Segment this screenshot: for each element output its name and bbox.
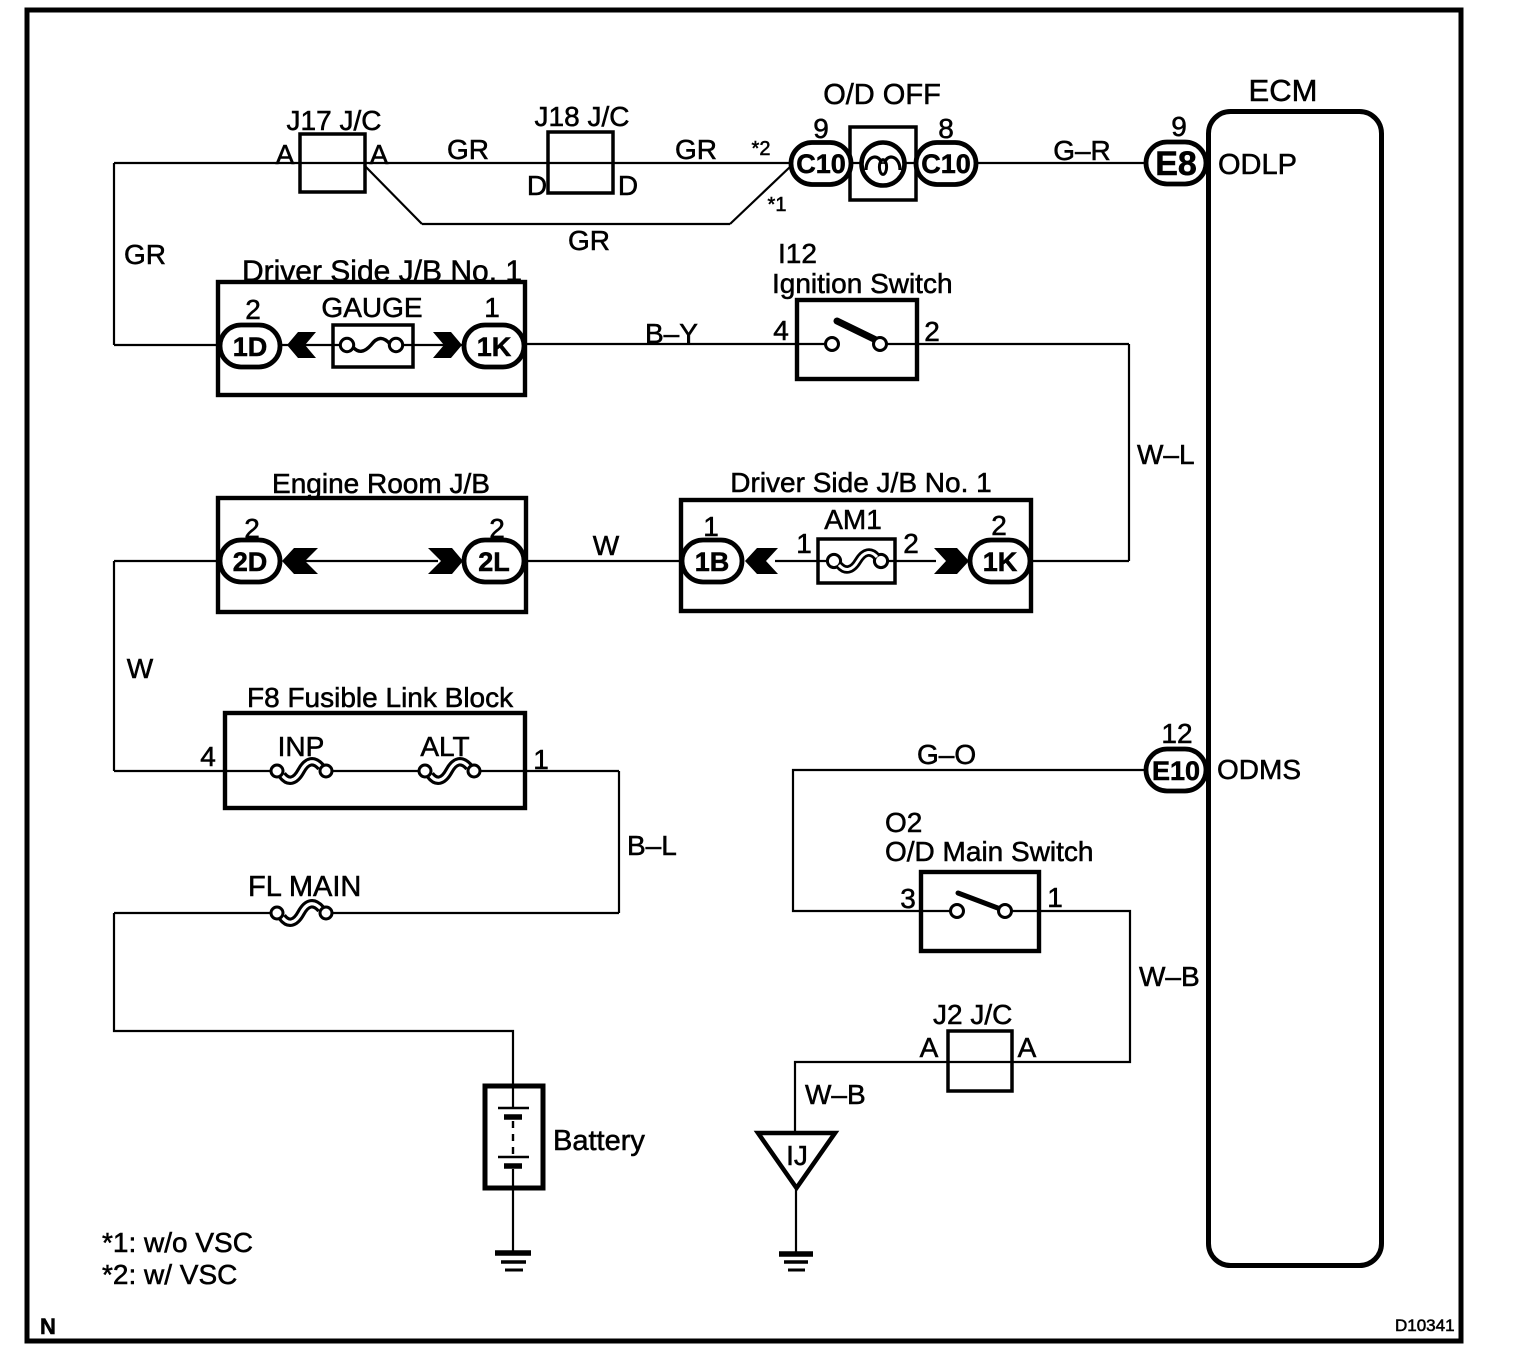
wire B-Y <box>524 343 797 345</box>
wire GR main horizontal top <box>114 162 791 164</box>
F8 Fusible Link Block <box>200 682 549 808</box>
svg-text:GR: GR <box>675 134 717 165</box>
svg-text:J2 J/C: J2 J/C <box>933 999 1012 1030</box>
svg-text:Ignition Switch: Ignition Switch <box>772 268 953 299</box>
wire G-R <box>976 162 1146 164</box>
fusible link FL MAIN <box>114 871 619 922</box>
svg-text:ECM: ECM <box>1249 73 1318 108</box>
connector E8 pin 9 ODLP <box>1146 111 1297 184</box>
svg-text:1B: 1B <box>695 547 730 577</box>
connector C10 pin 8 <box>916 113 976 185</box>
svg-text:*2: w/ VSC: *2: w/ VSC <box>102 1259 237 1290</box>
svg-text:GR: GR <box>447 134 489 165</box>
wire battery to ground <box>512 1188 514 1252</box>
svg-text:A: A <box>1018 1032 1037 1063</box>
Engine Room J/B block <box>218 468 526 612</box>
Driver Side J/B No.1 block (lower) <box>681 467 1031 611</box>
svg-text:W–B: W–B <box>1139 961 1200 992</box>
svg-text:I12: I12 <box>778 238 817 269</box>
arrow left ERJB <box>282 548 318 574</box>
wire into F8 <box>114 770 271 772</box>
svg-text:9: 9 <box>813 113 829 144</box>
wire lower GR horizontal <box>422 223 730 225</box>
svg-text:*1: *1 <box>768 194 787 216</box>
svg-text:2: 2 <box>991 510 1007 541</box>
svg-text:W: W <box>593 530 620 561</box>
terminal 2L pin 2 <box>464 513 524 582</box>
svg-text:E8: E8 <box>1155 145 1197 183</box>
ground battery <box>495 1253 531 1270</box>
svg-text:GAUGE: GAUGE <box>321 292 422 323</box>
wire W-L vertical <box>1128 344 1130 561</box>
wire from ignition to W-L vertical <box>917 343 1129 345</box>
connector C10 pin 9 <box>791 113 851 185</box>
wire W-B vertical <box>1012 911 1130 1062</box>
terminal 1D pin 2 <box>220 294 280 367</box>
ground connector IJ <box>758 1133 835 1188</box>
svg-text:O2: O2 <box>885 807 922 838</box>
svg-text:E10: E10 <box>1152 756 1200 786</box>
svg-text:B–Y: B–Y <box>645 318 698 349</box>
svg-text:GR: GR <box>568 225 610 256</box>
svg-text:A: A <box>370 139 389 170</box>
svg-text:IJ: IJ <box>786 1140 808 1171</box>
svg-text:B–L: B–L <box>627 830 677 861</box>
wire W left vertical <box>113 561 115 771</box>
svg-text:D: D <box>618 170 638 201</box>
svg-text:INP: INP <box>278 731 325 762</box>
svg-text:C10: C10 <box>921 149 971 179</box>
junction J17 J/C <box>276 105 389 192</box>
wire diagonal up to C10 <box>730 166 791 224</box>
svg-text:1: 1 <box>484 292 500 323</box>
arrow right JB1 <box>433 332 462 358</box>
fusible link ALT <box>419 731 619 780</box>
wire through J2 to IJ <box>795 1062 1012 1133</box>
svg-text:W–B: W–B <box>805 1079 866 1110</box>
wire 1D feed <box>114 344 222 346</box>
svg-text:1D: 1D <box>233 332 268 362</box>
svg-text:2D: 2D <box>233 547 268 577</box>
O/D OFF indicator lamp <box>823 79 941 200</box>
svg-text:2: 2 <box>244 513 260 544</box>
wire B-L vertical <box>618 771 620 913</box>
svg-text:C10: C10 <box>796 149 846 179</box>
svg-text:2: 2 <box>489 513 505 544</box>
arrow right ERJB <box>428 548 463 574</box>
svg-text:8: 8 <box>938 113 954 144</box>
terminal 1K pin 2 <box>970 510 1030 582</box>
wire inside JB2 left <box>775 560 836 562</box>
svg-text:O/D OFF: O/D OFF <box>823 79 941 111</box>
svg-text:1K: 1K <box>983 547 1018 577</box>
wire W between JBs <box>524 560 682 562</box>
svg-text:GR: GR <box>124 239 166 270</box>
svg-text:1: 1 <box>1047 882 1063 913</box>
svg-text:2: 2 <box>903 528 919 559</box>
fuse GAUGE <box>321 292 422 367</box>
terminal 1B pin 1 <box>682 511 742 582</box>
wire left vertical GR <box>113 163 115 345</box>
wire inside JB1 left <box>280 344 341 346</box>
svg-text:2L: 2L <box>478 547 510 577</box>
fuse AM1 <box>796 504 919 583</box>
svg-text:*2: *2 <box>752 138 771 160</box>
svg-text:A: A <box>920 1032 939 1063</box>
wire inside ERJB <box>305 560 438 562</box>
svg-text:F8 Fusible Link Block: F8 Fusible Link Block <box>247 682 514 713</box>
arrow left JB2 <box>745 548 778 574</box>
wire IJ to ground <box>795 1188 797 1252</box>
svg-text:N: N <box>40 1314 56 1339</box>
svg-text:*1: w/o VSC: *1: w/o VSC <box>102 1227 253 1258</box>
svg-text:W: W <box>127 653 154 684</box>
svg-text:1: 1 <box>703 511 719 542</box>
ground IJ <box>779 1254 813 1270</box>
svg-text:3: 3 <box>900 883 916 914</box>
wire into 1K second <box>1030 560 1129 562</box>
svg-text:G–R: G–R <box>1053 135 1111 166</box>
svg-text:D: D <box>527 170 547 201</box>
svg-text:12: 12 <box>1161 718 1192 749</box>
junction J18 J/C <box>527 101 638 201</box>
ignition switch I12 <box>772 238 953 379</box>
svg-text:Battery: Battery <box>553 1125 645 1157</box>
svg-text:ODLP: ODLP <box>1218 149 1297 181</box>
svg-text:J18 J/C: J18 J/C <box>535 101 630 132</box>
svg-text:4: 4 <box>200 741 216 772</box>
svg-text:W–L: W–L <box>1137 439 1195 470</box>
svg-text:G–O: G–O <box>917 739 976 770</box>
svg-text:O/D Main Switch: O/D Main Switch <box>885 836 1094 867</box>
svg-text:A: A <box>276 139 295 170</box>
O/D main switch O2 <box>885 807 1094 951</box>
wire inside JB1 right <box>402 344 464 346</box>
svg-text:Engine Room J/B: Engine Room J/B <box>272 468 490 499</box>
svg-text:FL MAIN: FL MAIN <box>248 871 361 903</box>
wire diagonal from J17 to lower GR path <box>364 165 422 224</box>
terminal 1K pin 1 <box>464 292 524 367</box>
ECM connector box <box>1209 73 1382 1266</box>
svg-text:1K: 1K <box>477 332 512 362</box>
wire 2D to left vertical <box>114 560 220 562</box>
svg-text:Driver Side J/B No. 1: Driver Side J/B No. 1 <box>730 467 991 498</box>
battery <box>485 1086 645 1188</box>
arrow right JB2 <box>934 548 969 574</box>
wire battery feed <box>114 913 513 1086</box>
arrow left JB1 <box>287 332 316 358</box>
connector E10 pin 12 ODMS <box>1146 718 1301 791</box>
Driver Side J/B No.1 block (upper) <box>218 255 525 395</box>
svg-text:4: 4 <box>773 315 789 346</box>
svg-text:2: 2 <box>245 294 261 325</box>
fusible link INP <box>271 731 419 780</box>
svg-text:2: 2 <box>924 316 940 347</box>
svg-text:D10341: D10341 <box>1395 1316 1455 1335</box>
svg-text:AM1: AM1 <box>824 504 882 535</box>
wire inside JB2 right <box>879 560 936 562</box>
terminal 2D pin 2 <box>220 513 280 582</box>
svg-text:J17 J/C: J17 J/C <box>287 105 382 136</box>
svg-text:1: 1 <box>796 528 812 559</box>
svg-text:ODMS: ODMS <box>1217 754 1301 785</box>
svg-text:9: 9 <box>1171 111 1187 142</box>
junction J2 J/C <box>920 999 1037 1091</box>
wire G-O <box>793 770 1146 911</box>
